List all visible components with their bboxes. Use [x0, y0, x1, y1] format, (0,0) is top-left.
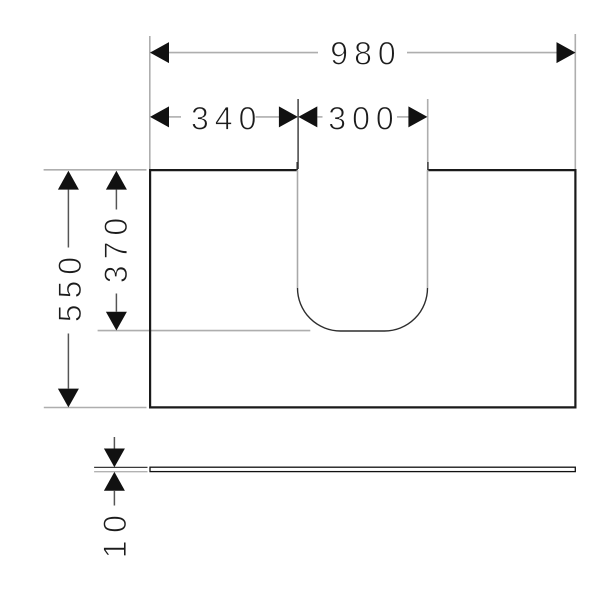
- svg-text:300: 300: [328, 101, 399, 137]
- svg-text:10: 10: [97, 508, 133, 559]
- svg-text:550: 550: [52, 251, 88, 322]
- svg-text:340: 340: [191, 101, 262, 137]
- svg-text:980: 980: [330, 36, 401, 72]
- svg-text:370: 370: [98, 212, 134, 283]
